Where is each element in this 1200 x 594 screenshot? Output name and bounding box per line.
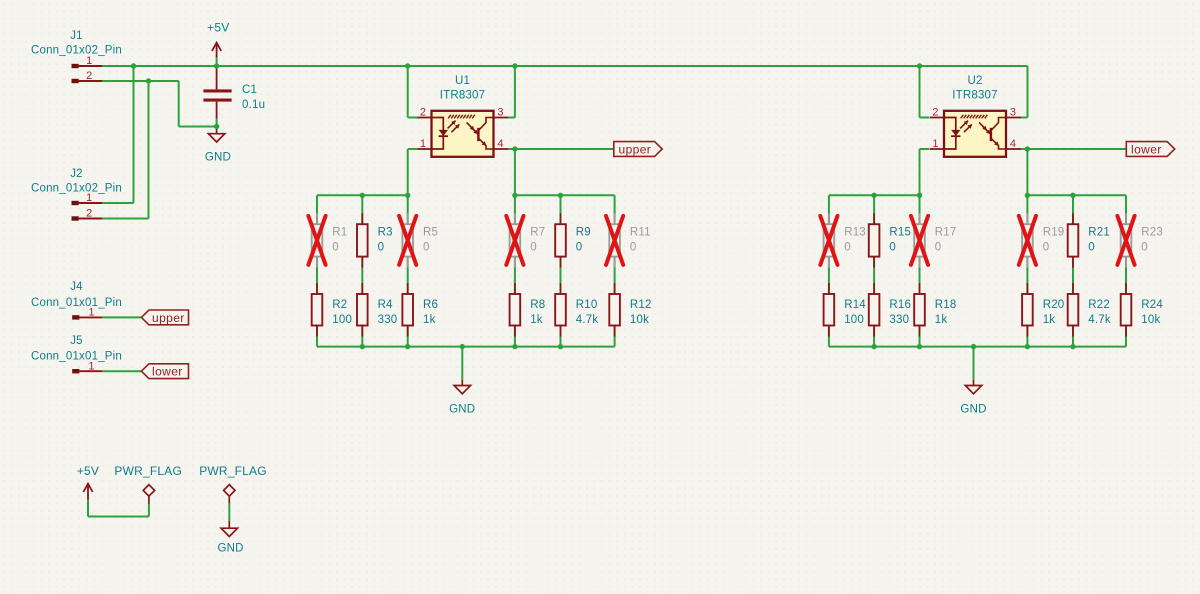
svg-text:GND: GND <box>205 151 231 163</box>
svg-text:2: 2 <box>86 70 92 82</box>
wire C1 top lead connection <box>216 58 218 66</box>
wire right bank bottom GND rail <box>829 346 1126 348</box>
junction <box>1025 146 1030 151</box>
DNP cross over R5 <box>399 216 416 265</box>
svg-text:R8: R8 <box>530 299 545 311</box>
svg-text:0: 0 <box>423 242 430 254</box>
resistor R7 (DNP) <box>510 213 521 267</box>
svg-text:R14: R14 <box>844 299 866 311</box>
svg-text:R18: R18 <box>935 299 957 311</box>
wire U2 pin3 riser <box>1027 66 1029 118</box>
svg-text:U1: U1 <box>455 75 470 87</box>
wire left bank top rail A <box>317 194 408 196</box>
wire U2 pin1 to resistor bank <box>920 148 930 150</box>
svg-text:1k: 1k <box>935 314 948 326</box>
svg-text:R19: R19 <box>1043 227 1065 239</box>
junction <box>917 344 922 349</box>
junction <box>405 344 410 349</box>
svg-text:1k: 1k <box>1043 314 1056 326</box>
svg-text:lower: lower <box>1131 143 1162 157</box>
connector J4 pin 1 <box>72 315 102 319</box>
wire U1 pin2 riser <box>407 66 409 118</box>
resistor R22 <box>1068 283 1079 337</box>
power symbol +5V (top) <box>212 43 221 58</box>
svg-text:R13: R13 <box>844 227 866 239</box>
wire J2 pin1 riser <box>133 66 135 203</box>
svg-text:Conn_01x01_Pin: Conn_01x01_Pin <box>31 297 122 309</box>
resistor R4 <box>357 283 368 337</box>
resistor R23 (DNP) <box>1121 213 1132 267</box>
svg-text:J2: J2 <box>70 168 83 180</box>
svg-text:100: 100 <box>332 314 352 326</box>
junction <box>512 63 517 68</box>
svg-text:GND: GND <box>960 404 986 416</box>
ground under C1 <box>208 127 224 143</box>
wire left bank bottom GND rail <box>317 346 615 348</box>
svg-text:lower: lower <box>152 365 183 379</box>
svg-text:0: 0 <box>332 242 339 254</box>
svg-text:0: 0 <box>576 242 583 254</box>
DNP cross over R11 <box>606 216 623 265</box>
svg-text:R12: R12 <box>630 299 652 311</box>
junction <box>131 63 136 68</box>
junction <box>1025 344 1030 349</box>
svg-text:upper: upper <box>152 311 185 325</box>
U2 light arrows <box>960 121 990 134</box>
svg-text:1: 1 <box>420 138 426 150</box>
U1 reflective surface hatch <box>448 115 475 119</box>
svg-text:0: 0 <box>1088 242 1095 254</box>
svg-text:R20: R20 <box>1043 299 1065 311</box>
svg-text:10k: 10k <box>1141 314 1160 326</box>
svg-text:0: 0 <box>630 242 637 254</box>
svg-text:4: 4 <box>497 138 503 150</box>
wire resistor column <box>919 195 921 346</box>
DNP cross over R23 <box>1117 216 1134 265</box>
junction <box>558 193 563 198</box>
ground under left resistor bank <box>454 347 470 394</box>
resistor R6 <box>402 283 413 337</box>
optocoupler U1 body <box>432 111 494 157</box>
svg-text:R22: R22 <box>1088 299 1110 311</box>
svg-text:PWR_FLAG: PWR_FLAG <box>114 464 182 478</box>
svg-text:1: 1 <box>86 55 92 67</box>
junction <box>405 193 410 198</box>
resistor R18 <box>914 283 925 337</box>
svg-text:10k: 10k <box>630 314 649 326</box>
wire resistor column <box>560 195 562 346</box>
wire PWR_FLAG to GND (bottom) <box>228 503 230 521</box>
U2 internal phototransistor <box>991 118 1006 150</box>
wire resistor column <box>1125 195 1127 346</box>
junction <box>214 63 219 68</box>
svg-text:R6: R6 <box>423 299 438 311</box>
global label lower (at J5) <box>141 364 188 379</box>
U1 light arrows <box>448 121 478 134</box>
svg-text:R4: R4 <box>378 299 394 311</box>
resistor R15 <box>869 213 880 267</box>
connector J5 pin 1 <box>72 369 102 373</box>
wire +5V to PWR_FLAG (bottom left) <box>87 500 89 517</box>
junction <box>558 344 563 349</box>
ground under PWR_FLAG 2 <box>221 521 237 537</box>
svg-text:4.7k: 4.7k <box>1088 314 1111 326</box>
svg-text:upper: upper <box>619 143 652 157</box>
wire resistor column <box>614 195 616 346</box>
svg-text:R7: R7 <box>530 227 545 239</box>
resistor R11 (DNP) <box>609 213 620 267</box>
junction <box>146 78 151 83</box>
svg-text:R23: R23 <box>1141 227 1163 239</box>
resistor R10 <box>555 283 566 337</box>
svg-text:Conn_01x02_Pin: Conn_01x02_Pin <box>31 182 122 194</box>
svg-text:R5: R5 <box>423 227 438 239</box>
wire U2 pin4 to resistor bank <box>1026 149 1028 195</box>
wire right bank top rail A <box>829 194 920 196</box>
wire resistor column <box>316 195 318 346</box>
U2 pin 3 (top-right) <box>1006 117 1021 119</box>
svg-text:0: 0 <box>378 242 385 254</box>
svg-text:1: 1 <box>88 360 94 372</box>
svg-text:PWR_FLAG: PWR_FLAG <box>199 464 267 478</box>
junction <box>1070 344 1075 349</box>
svg-text:U2: U2 <box>967 75 982 87</box>
svg-text:1k: 1k <box>423 314 436 326</box>
junction <box>1025 193 1030 198</box>
optocoupler U2 body <box>944 111 1006 157</box>
wire GND rail from J1 pin 2 <box>102 80 179 82</box>
svg-text:R2: R2 <box>332 299 347 311</box>
resistor R1 (DNP) <box>312 213 323 267</box>
resistor R2 <box>312 283 323 337</box>
svg-text:1: 1 <box>88 307 94 319</box>
resistor R12 <box>609 283 620 337</box>
svg-text:R10: R10 <box>576 299 598 311</box>
wire U2 pin4 to lower label <box>1021 148 1126 150</box>
junction <box>871 344 876 349</box>
junction <box>405 63 410 68</box>
U1 pin 1 (bottom-left) <box>418 148 432 150</box>
wire U1 pin4 to resistor bank <box>514 149 516 195</box>
svg-text:0: 0 <box>1141 242 1148 254</box>
svg-text:4.7k: 4.7k <box>576 314 599 326</box>
U2 pin 4 (bottom-right) <box>1006 148 1021 150</box>
wire +5V main rail <box>102 65 1028 67</box>
U1 internal phototransistor <box>478 118 493 150</box>
svg-text:R9: R9 <box>576 227 591 239</box>
svg-text:C1: C1 <box>242 84 257 96</box>
svg-text:+5V: +5V <box>207 21 229 35</box>
connector J2 pin 2 <box>72 216 103 220</box>
junction <box>512 193 517 198</box>
svg-text:2: 2 <box>932 106 938 118</box>
svg-text:+5V: +5V <box>77 464 99 478</box>
resistor R17 (DNP) <box>914 213 925 267</box>
resistor R8 <box>510 283 521 337</box>
global label upper (output, right of U1) <box>614 142 662 157</box>
power flag PWR_FLAG 1 <box>143 485 154 504</box>
resistor R9 <box>555 213 566 267</box>
wire resistor column <box>407 195 409 346</box>
DNP cross over R13 <box>820 216 837 265</box>
junction <box>871 193 876 198</box>
resistor R20 <box>1022 283 1033 337</box>
svg-text:100: 100 <box>844 314 864 326</box>
wire J2 pin2 riser <box>148 81 150 219</box>
junction <box>512 146 517 151</box>
junction <box>917 193 922 198</box>
wire right bank top rail B <box>1027 194 1126 196</box>
junction <box>1070 193 1075 198</box>
junction <box>214 124 219 129</box>
U2 reflective surface hatch <box>961 115 988 119</box>
power flag PWR_FLAG 2 <box>224 485 235 503</box>
U2 internal LED <box>944 118 961 150</box>
svg-text:ITR8307: ITR8307 <box>440 89 486 101</box>
svg-text:0.1u: 0.1u <box>242 99 265 111</box>
wire resistor column <box>361 195 363 346</box>
DNP cross over R1 <box>308 216 325 265</box>
svg-text:J1: J1 <box>70 30 83 42</box>
svg-text:R16: R16 <box>889 299 911 311</box>
svg-text:R1: R1 <box>332 227 347 239</box>
junction <box>512 344 517 349</box>
U1 pin 4 (bottom-right) <box>494 148 509 150</box>
U2 pin 2 (top-left) <box>930 117 944 119</box>
connector J2 pin 1 <box>72 201 103 205</box>
svg-text:0: 0 <box>1043 242 1050 254</box>
svg-text:ITR8307: ITR8307 <box>952 89 998 101</box>
svg-text:4: 4 <box>1010 138 1016 150</box>
svg-text:0: 0 <box>935 242 942 254</box>
svg-text:J5: J5 <box>70 335 83 347</box>
wire resistor column <box>1026 195 1028 346</box>
wire U1 pin4 to upper label <box>509 148 614 150</box>
junction <box>460 344 465 349</box>
svg-text:R17: R17 <box>935 227 957 239</box>
global label lower (output, right of U2) <box>1126 142 1174 157</box>
svg-text:R11: R11 <box>630 227 651 239</box>
DNP cross over R17 <box>911 216 928 265</box>
U1 pin 3 (top-right) <box>494 117 509 119</box>
svg-text:0: 0 <box>889 242 896 254</box>
wire U2 pin2 riser <box>919 66 921 118</box>
wire U1 pin1 to resistor bank <box>408 148 418 150</box>
wire J4 pin to upper label <box>102 316 141 318</box>
svg-text:R3: R3 <box>378 227 393 239</box>
svg-text:1: 1 <box>932 138 938 150</box>
svg-text:R24: R24 <box>1141 299 1163 311</box>
svg-text:3: 3 <box>1010 106 1016 118</box>
resistor R19 (DNP) <box>1022 213 1033 267</box>
resistor R16 <box>869 283 880 337</box>
wire C1 bottom lead connection <box>216 119 218 127</box>
svg-text:0: 0 <box>530 242 537 254</box>
wire left bank top rail B <box>515 194 615 196</box>
resistor R13 (DNP) <box>824 213 835 267</box>
wire resistor column <box>1072 195 1074 346</box>
wire U1 pin3 riser <box>514 66 516 118</box>
power symbol +5V (bottom left) <box>83 484 92 500</box>
wire resistor column <box>873 195 875 346</box>
svg-text:R15: R15 <box>889 227 911 239</box>
svg-text:0: 0 <box>844 242 851 254</box>
resistor R14 <box>824 283 835 337</box>
wire resistor column <box>514 195 516 346</box>
ground under right resistor bank <box>965 347 981 394</box>
junction <box>360 344 365 349</box>
svg-text:R21: R21 <box>1088 227 1110 239</box>
junction <box>917 63 922 68</box>
DNP cross over R19 <box>1019 216 1036 265</box>
svg-text:GND: GND <box>449 404 475 416</box>
resistor R24 <box>1121 283 1132 337</box>
svg-text:Conn_01x01_Pin: Conn_01x01_Pin <box>31 351 122 363</box>
wire resistor column <box>828 195 830 346</box>
svg-text:1: 1 <box>86 192 92 204</box>
U1 pin 2 (top-left) <box>418 117 432 119</box>
svg-text:GND: GND <box>218 543 244 555</box>
svg-text:1k: 1k <box>530 314 543 326</box>
connector J1 pin 1 <box>72 64 103 68</box>
junction <box>971 344 976 349</box>
U2 pin 1 (bottom-left) <box>930 148 944 150</box>
svg-text:2: 2 <box>420 106 426 118</box>
svg-text:330: 330 <box>889 314 909 326</box>
connector J1 pin 2 <box>72 79 103 83</box>
svg-text:J4: J4 <box>70 281 83 293</box>
junction <box>360 193 365 198</box>
svg-text:330: 330 <box>378 314 398 326</box>
U1 internal LED <box>432 118 449 150</box>
svg-text:3: 3 <box>497 106 503 118</box>
resistor R5 (DNP) <box>402 213 413 267</box>
global label upper (at J4) <box>141 310 188 325</box>
svg-text:Conn_01x02_Pin: Conn_01x02_Pin <box>31 45 122 57</box>
svg-text:2: 2 <box>86 208 92 220</box>
capacitor C1 <box>203 66 231 119</box>
wire J5 pin to lower label <box>102 370 141 372</box>
resistor R21 <box>1068 213 1079 267</box>
resistor R3 <box>357 213 368 267</box>
DNP cross over R7 <box>506 216 523 265</box>
